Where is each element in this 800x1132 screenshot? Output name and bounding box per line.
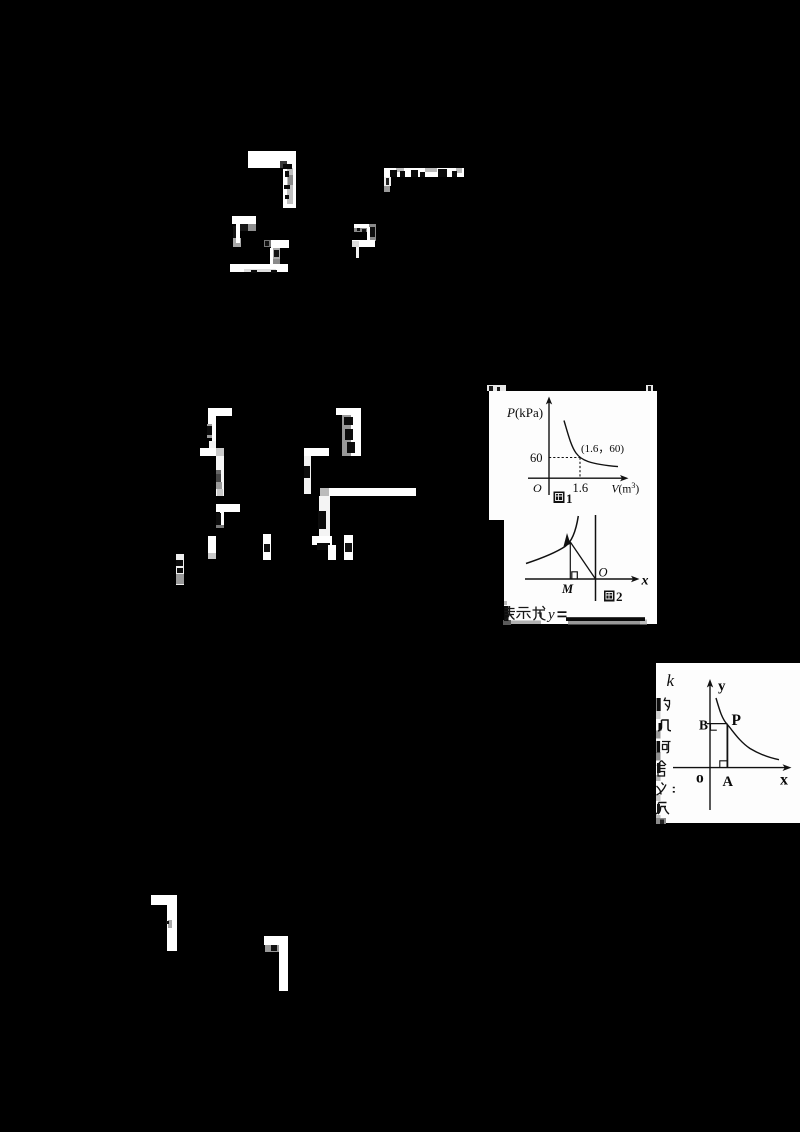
svg-text:2: 2	[616, 589, 623, 604]
fragment patch D (bottom bar)	[230, 264, 288, 273]
svg-text:O: O	[599, 566, 608, 580]
svg-text:P: P	[732, 712, 742, 729]
fig2 x-axis	[525, 578, 634, 580]
fig1 curve	[564, 421, 618, 467]
figure panel white background	[489, 391, 657, 624]
fig1 dashed lines to point (1.6,60)	[549, 458, 580, 479]
fragment patch C	[264, 240, 289, 264]
cut first character block	[504, 606, 509, 621]
fig1 x-axis	[528, 477, 623, 479]
fragment patch Q	[344, 535, 353, 560]
k-graph right-angle mark at B	[711, 724, 717, 731]
CJK column char 几	[658, 720, 671, 731]
k-graph y-axis	[709, 684, 711, 810]
fragment patch I	[208, 536, 216, 559]
fig2 curve	[526, 516, 578, 564]
k-graph curve	[716, 698, 779, 760]
svg-text:x: x	[780, 772, 788, 789]
fig2 x-axis arrowhead	[631, 576, 640, 582]
CJK column char 的	[657, 698, 670, 712]
fragment patch O	[318, 496, 330, 537]
k-graph x-axis arrowhead	[783, 764, 792, 771]
right panel white background	[656, 663, 800, 823]
fragment patch F (long top-right bar)	[384, 168, 464, 192]
fragment patch H	[216, 504, 240, 528]
fig1 caption 图1	[554, 491, 573, 506]
fragment patch N (long mid bar)	[320, 488, 416, 496]
fig2 segment A to M	[569, 542, 571, 579]
svg-text:y: y	[718, 679, 726, 695]
gray edge bits at panel bottom	[503, 620, 511, 625]
fig2 caption 图2	[604, 589, 623, 604]
fragment patch K (left edge strip)	[176, 554, 184, 585]
k-graph y-axis arrowhead	[707, 679, 713, 688]
fig2 vertical axis line	[595, 515, 597, 601]
CJK glyph 成	[533, 606, 546, 620]
fig1 y-axis	[548, 402, 550, 495]
svg-text:A: A	[723, 774, 734, 790]
CJK column char 何	[657, 741, 671, 753]
k-graph right-angle mark at A	[720, 761, 727, 768]
fragment patch M (hook)	[304, 448, 329, 494]
CJK column char 义	[657, 783, 675, 796]
svg-text:M: M	[561, 582, 574, 596]
gray cut-edge strip of CJK column	[656, 711, 666, 824]
fig1 x-axis arrowhead	[620, 475, 629, 481]
k-graph segment B to P	[707, 723, 727, 725]
fragment patch R (7-shape)	[151, 895, 177, 951]
svg-text:1.6: 1.6	[573, 481, 589, 495]
white nub above box	[487, 385, 506, 391]
fragment patch L (7-shape)	[336, 408, 361, 456]
svg-text:(1.6，60): (1.6，60)	[581, 443, 624, 455]
k-graph x-axis	[673, 767, 786, 769]
fragment patch A (7-shape)	[248, 151, 296, 208]
answer blank underline	[566, 617, 645, 621]
fragment patch B (hook)	[232, 216, 256, 247]
equals sign	[558, 611, 567, 613]
svg-text:y: y	[546, 607, 555, 623]
svg-text:60: 60	[530, 451, 543, 465]
fig2 segment A to O	[570, 542, 595, 579]
svg-text:o: o	[696, 770, 704, 787]
fig2 right-angle mark at M	[572, 572, 578, 579]
fig2 arrowhead at point A	[564, 533, 571, 547]
fragment patch P	[312, 536, 336, 560]
svg-text:V(m3): V(m3)	[612, 481, 640, 496]
fig1 y-axis arrowhead	[546, 397, 552, 405]
white nub above box right	[646, 385, 653, 391]
CJK glyph 示	[517, 608, 531, 620]
fragment patch J	[263, 534, 271, 560]
k-graph segment P to A	[726, 725, 728, 768]
fragment patch S (7-shape)	[264, 936, 288, 991]
fragment patch E	[352, 224, 376, 258]
svg-text:1: 1	[566, 491, 573, 506]
svg-text:O: O	[533, 481, 542, 495]
svg-text:B: B	[699, 718, 708, 733]
CJK column char 反	[656, 803, 669, 815]
CJK column char 含	[657, 761, 666, 777]
fragment patch G	[200, 408, 232, 496]
svg-text:x: x	[641, 574, 649, 589]
svg-text:k: k	[667, 671, 675, 690]
CJK glyph 表(cut)	[505, 606, 516, 620]
svg-text:P(kPa): P(kPa)	[506, 405, 543, 420]
